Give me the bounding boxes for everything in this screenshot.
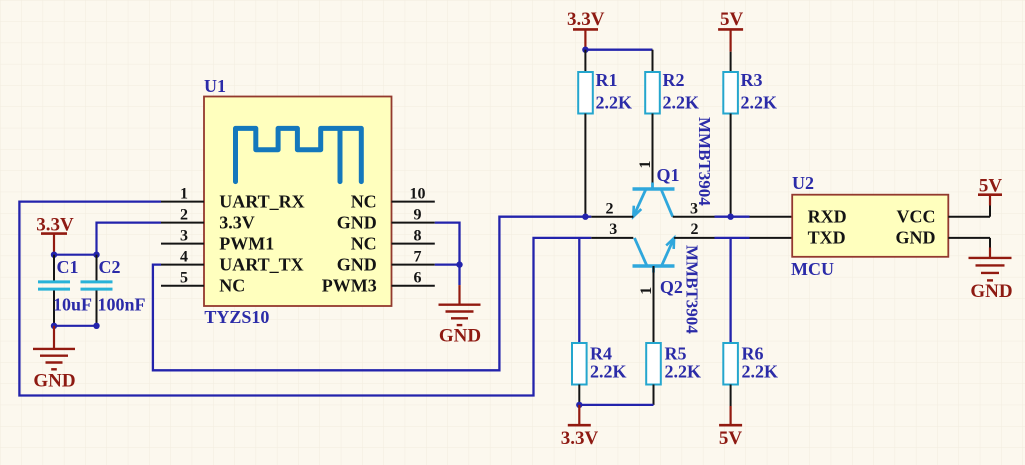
svg-text:R3: R3 <box>741 70 763 90</box>
MCU U2 body <box>792 195 948 257</box>
junction 3.3V/R1 <box>582 47 588 53</box>
U1 pin 1 <box>161 201 204 203</box>
wire Q1 collector stub <box>673 216 715 218</box>
resistor R5 <box>646 343 701 385</box>
svg-text:5V: 5V <box>979 175 1003 196</box>
wire R4/R5 bottom rail <box>579 404 653 406</box>
wire Q2 emitter stub <box>674 237 714 239</box>
junction at C1 top <box>51 252 57 258</box>
wire R2 top <box>652 50 654 72</box>
wire row1 to U2 RXD <box>715 216 750 218</box>
U1 pin 7 <box>392 264 435 266</box>
svg-text:2.2K: 2.2K <box>665 362 702 382</box>
U2 TXD pin stub <box>750 237 793 239</box>
transistor Q1 <box>633 183 675 217</box>
U2 RXD pin stub <box>750 216 793 218</box>
svg-text:NC: NC <box>351 234 377 254</box>
svg-text:R1: R1 <box>596 70 618 90</box>
svg-text:3.3V: 3.3V <box>219 213 255 233</box>
wire R5 top (Q2 base) <box>653 266 655 343</box>
junction R3/row <box>727 214 733 220</box>
power 5V (top) <box>718 9 743 52</box>
wire R1 bottom to row <box>584 114 586 217</box>
svg-text:TXD: TXD <box>808 228 846 248</box>
svg-text:U2: U2 <box>792 173 814 193</box>
wire U1 pin7 to ground <box>435 263 460 265</box>
wire R4 top <box>578 238 580 343</box>
wire R4 bottom <box>578 385 580 405</box>
svg-text:1: 1 <box>637 161 654 169</box>
wire row2 to U2 TXD <box>715 237 750 239</box>
svg-text:R5: R5 <box>665 344 687 364</box>
svg-text:3: 3 <box>609 221 617 238</box>
svg-text:100nF: 100nF <box>98 294 146 314</box>
svg-text:1: 1 <box>180 185 188 202</box>
U1 pin 8 <box>392 243 435 245</box>
power 3.3V (bottom) <box>561 405 599 449</box>
module U1 body <box>204 97 392 307</box>
svg-text:2.2K: 2.2K <box>663 92 700 112</box>
resistor R4 <box>572 343 627 385</box>
capacitor C1 <box>38 255 92 326</box>
transistor Q2 <box>633 238 675 273</box>
svg-text:3.3V: 3.3V <box>567 9 605 30</box>
svg-text:2: 2 <box>180 206 188 223</box>
svg-text:GND: GND <box>970 281 1012 302</box>
capacitor C2 <box>81 255 146 326</box>
wire net UART_RX (U1 pin1 around left/bottom to Q2 collector row) <box>19 202 591 396</box>
svg-text:2: 2 <box>691 221 699 238</box>
ground (right, below U2) <box>969 248 1013 302</box>
wire R2 bottom to Q1 base <box>652 114 654 190</box>
wire R5 bottom <box>653 385 655 405</box>
svg-text:10uF: 10uF <box>53 294 92 314</box>
svg-text:MMBT3904: MMBT3904 <box>683 245 702 334</box>
junction at C1 bottom <box>51 323 57 329</box>
svg-text:3: 3 <box>180 227 188 244</box>
wire U1 pin2 to capacitor rail <box>97 223 162 255</box>
wire R6 top <box>729 238 731 343</box>
junction R4 bottom <box>576 402 582 408</box>
svg-text:GND: GND <box>439 326 481 347</box>
svg-text:1: 1 <box>638 287 655 295</box>
wire VCC riser <box>989 206 991 217</box>
svg-text:NC: NC <box>351 192 377 212</box>
svg-text:MCU: MCU <box>791 259 834 279</box>
svg-text:8: 8 <box>414 227 422 244</box>
U1 pin 2 <box>161 222 204 224</box>
junction at C2 bottom <box>93 323 99 329</box>
wire capacitor bottom rail <box>54 325 97 327</box>
U1 pin 9 <box>392 222 435 224</box>
U2 GND pin stub <box>948 237 990 239</box>
svg-text:GND: GND <box>337 213 377 233</box>
U1 pin 4 <box>161 264 204 266</box>
junction at C2 top <box>93 252 99 258</box>
power 5V (bottom) <box>719 406 743 449</box>
svg-text:GND: GND <box>337 255 377 275</box>
resistor R2 <box>645 70 699 114</box>
wire net UART_TX (U1 pin4 under module to Q1 emitter row) <box>153 217 591 371</box>
svg-text:C2: C2 <box>99 257 121 277</box>
ground (below U1) <box>439 285 482 346</box>
U1 pin 6 <box>392 285 435 287</box>
svg-text:9: 9 <box>414 206 422 223</box>
svg-text:VCC: VCC <box>897 207 936 227</box>
svg-text:GND: GND <box>896 228 936 248</box>
svg-text:GND: GND <box>33 371 75 392</box>
U1 antenna logo <box>236 128 362 181</box>
svg-text:10: 10 <box>410 185 426 202</box>
power 5V (right) <box>978 175 1002 205</box>
svg-text:2.2K: 2.2K <box>590 362 627 382</box>
svg-text:C1: C1 <box>57 257 79 277</box>
wire Q2 collector stub <box>591 237 633 239</box>
svg-text:2.2K: 2.2K <box>742 362 779 382</box>
U2 VCC pin stub <box>948 216 990 218</box>
svg-text:MMBT3904: MMBT3904 <box>695 117 714 206</box>
svg-text:6: 6 <box>414 269 422 286</box>
ground (left, below C1) <box>33 326 76 392</box>
svg-text:TYZS10: TYZS10 <box>204 307 269 327</box>
wire R3 bottom to row <box>730 114 732 217</box>
wire GND drop <box>989 238 991 248</box>
svg-text:5V: 5V <box>719 428 743 449</box>
svg-text:R6: R6 <box>742 344 764 364</box>
svg-text:R2: R2 <box>663 70 685 90</box>
svg-text:2.2K: 2.2K <box>741 92 778 112</box>
svg-text:R4: R4 <box>590 344 612 364</box>
svg-text:Q2: Q2 <box>660 277 683 297</box>
junction R1/row <box>582 214 588 220</box>
svg-text:5: 5 <box>180 269 188 286</box>
svg-text:Q1: Q1 <box>657 165 680 185</box>
svg-text:2: 2 <box>606 201 614 218</box>
svg-text:2.2K: 2.2K <box>596 92 633 112</box>
wire U1 pin9 to ground <box>435 223 460 286</box>
wire Q1 emitter stub <box>591 216 633 218</box>
svg-text:NC: NC <box>219 276 245 296</box>
power 3.3V (left, capacitor rail) <box>36 215 74 255</box>
svg-text:PWM1: PWM1 <box>219 234 274 254</box>
wire capacitor top rail <box>54 254 97 256</box>
svg-text:PWM3: PWM3 <box>322 276 377 296</box>
wire R6 bottom <box>730 385 732 407</box>
svg-text:3: 3 <box>690 201 698 218</box>
svg-text:U1: U1 <box>204 76 226 96</box>
resistor R3 <box>723 70 777 114</box>
power 3.3V (top) <box>567 9 605 50</box>
svg-text:RXD: RXD <box>808 207 847 227</box>
svg-text:UART_TX: UART_TX <box>219 255 303 275</box>
wire 3.3V rail to R1/R2 <box>585 49 652 51</box>
svg-text:4: 4 <box>180 248 188 265</box>
wire R3 top <box>730 52 732 72</box>
resistor R1 <box>578 70 632 114</box>
resistor R6 <box>723 343 778 385</box>
U1 pin 5 <box>161 285 204 287</box>
U1 pin 10 <box>392 201 435 203</box>
wire R1 top <box>584 50 586 72</box>
svg-text:5V: 5V <box>720 9 744 30</box>
svg-text:7: 7 <box>414 248 422 265</box>
junction pin7/pin9 ground <box>456 261 462 267</box>
svg-text:3.3V: 3.3V <box>561 428 599 449</box>
svg-text:UART_RX: UART_RX <box>219 192 304 212</box>
U1 pin 3 <box>161 243 204 245</box>
